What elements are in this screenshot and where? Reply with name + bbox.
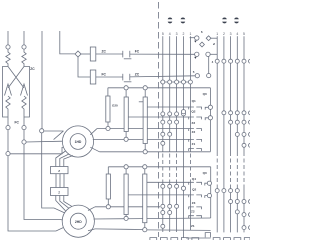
resistor box A2: [124, 174, 128, 215]
stub boxA2 bottom: [125, 215, 127, 217]
bridge BL circle: [195, 52, 199, 56]
wire L3 vertical: [41, 31, 43, 129]
svg-text:FC: FC: [135, 50, 140, 54]
bottom bus ladder: [186, 237, 211, 239]
pin column 4: [169, 36, 171, 152]
wire L2 vertical top: [23, 31, 25, 45]
svg-text:Q0: Q0: [203, 171, 207, 175]
wire L3 bottom run: [42, 133, 66, 214]
bus y167: [108, 166, 210, 168]
bus y117: [128, 116, 188, 118]
junction circle boxA top: [124, 86, 128, 90]
right circle row y145: [242, 143, 246, 147]
svg-text:3: 3: [230, 32, 232, 36]
stub boxB bottom: [144, 144, 146, 150]
bridge TL circle: [195, 36, 199, 40]
bus y229: [95, 228, 143, 231]
junction circle J2: [22, 140, 26, 144]
winding coil W1: [6, 96, 10, 125]
circle row y143: [161, 141, 165, 145]
bus y152: [100, 151, 211, 153]
circle row y226: [161, 224, 165, 228]
leads to motor2: [56, 196, 73, 211]
bridge feeder left top: [190, 37, 195, 39]
wire L2 lower: [23, 130, 25, 140]
terminal circle L1: [6, 45, 10, 49]
bottom connector shells: [150, 238, 157, 240]
svg-text:1HD: 1HD: [75, 140, 82, 144]
right col 5: [243, 36, 245, 152]
svg-text:FC: FC: [102, 73, 107, 77]
bus B to motor1: [26, 140, 63, 143]
junction circle under G20: [106, 126, 110, 130]
svg-text:G20: G20: [112, 104, 118, 108]
crossing wire X2: [8, 67, 24, 89]
contact row 206: [189, 207, 202, 209]
motor2 out diag bottom: [88, 229, 95, 231]
circle row y122: [161, 120, 165, 124]
right circle row y122: [229, 120, 233, 124]
svg-text:Z3: Z3: [192, 121, 196, 125]
circle row y186: [161, 184, 165, 188]
svg-text:Z3: Z3: [192, 201, 196, 205]
bus y139: [93, 138, 189, 140]
svg-text:5: 5: [162, 32, 164, 36]
wire L1 bottom run: [8, 156, 65, 231]
svg-text:Z1: Z1: [191, 224, 195, 228]
junction circle boxB top: [143, 86, 147, 90]
circle row y206: [161, 204, 165, 208]
connector arcs left pair1: [168, 17, 173, 23]
bus y182: [147, 181, 189, 183]
right col 4: [236, 36, 238, 152]
feeder vertical to ZC/FC: [60, 31, 75, 54]
resistor box A: [124, 97, 128, 132]
winding roof W1: [5, 84, 12, 96]
bridge BR circle: [206, 52, 210, 56]
right col 1: [216, 36, 218, 59]
connector tick 2a: [122, 74, 124, 81]
svg-text:Q0: Q0: [203, 92, 207, 96]
wire ZC to connector: [96, 53, 123, 55]
box FC: [90, 70, 96, 84]
motor1 out diag bottom: [90, 147, 99, 152]
bus C to motor1: [10, 147, 65, 154]
stub G20 bottom: [107, 122, 109, 126]
connector tick 1b: [129, 51, 131, 58]
fuse coil FU1: [6, 49, 10, 64]
terminal circle M2: [22, 126, 26, 130]
bus y128: [97, 128, 189, 130]
winding coil W2: [22, 96, 26, 125]
svg-text:Z1: Z1: [192, 142, 196, 146]
rail circle 118: [208, 116, 212, 120]
motor 2HD inner: [70, 213, 86, 229]
wire L2 bottom run: [24, 144, 63, 220]
motor 2HD outer: [62, 205, 94, 237]
terminal circle M1: [6, 126, 10, 130]
junction circle under G20b: [106, 205, 110, 209]
svg-text:N: N: [212, 43, 216, 45]
svg-text:FC: FC: [15, 121, 20, 125]
crossing wire X1: [8, 67, 24, 89]
bottom bracket: [205, 233, 210, 238]
connector dash 1: [124, 58, 132, 60]
resistor box B: [143, 97, 147, 144]
right circle row y190: [215, 189, 219, 193]
svg-text:2: 2: [183, 32, 185, 36]
diagonal feeder motor1 top: [54, 131, 64, 140]
winding roof W2: [21, 84, 28, 96]
wire diamond down: [78, 57, 90, 77]
node circle 4line: [207, 74, 211, 78]
contact row 127: [189, 129, 202, 131]
right circle row y134: [235, 132, 239, 136]
right circle row y113: [222, 111, 226, 115]
motor2 out diag top: [88, 207, 95, 211]
bus ZC to node5: [130, 76, 195, 77]
connector arcs right pair1: [222, 17, 227, 23]
svg-text:4: 4: [236, 32, 238, 36]
connector arcs right pair2: [234, 17, 239, 23]
svg-text:ZC: ZC: [135, 73, 140, 77]
wire FC to connector: [96, 76, 123, 78]
rail hook 107: [205, 107, 208, 109]
outer rail right: [24, 64, 30, 117]
bus y230 right part: [147, 229, 211, 232]
stub boxB2 top: [144, 169, 146, 174]
bridge diode mark 1: [194, 41, 196, 43]
bus y195: [128, 194, 189, 196]
bus y107: [147, 106, 188, 108]
resistor G20b: [106, 174, 110, 199]
rail circle 195: [207, 194, 211, 198]
svg-text:ZC: ZC: [30, 67, 35, 71]
rail circle 107: [208, 105, 212, 109]
rail hook 118: [205, 118, 208, 120]
rail hook 183: [205, 183, 208, 185]
right col6 circles: [249, 59, 253, 63]
bus y218: [94, 218, 211, 219]
junction circle boxA bottom: [124, 137, 128, 141]
bridge center diamond: [200, 42, 205, 47]
svg-text:Q4: Q4: [192, 177, 196, 181]
svg-text:3: 3: [176, 32, 178, 36]
contact row 182: [189, 182, 202, 184]
circle row y212: [161, 211, 165, 215]
stub G20b bottom: [107, 199, 109, 205]
fuse coil FU2: [22, 49, 26, 64]
ladder right rail upper: [209, 88, 211, 152]
rail circle 183: [207, 181, 211, 185]
motor 1HD inner: [70, 134, 86, 150]
connector tick 2b: [129, 74, 131, 81]
wire L1 vertical top: [7, 31, 9, 45]
right col 2: [223, 36, 225, 232]
stub boxA top: [125, 90, 127, 97]
contact row 148: [189, 149, 202, 151]
svg-text:Z2: Z2: [192, 130, 196, 134]
svg-text:Q2: Q2: [191, 110, 195, 114]
box ZC: [90, 47, 96, 61]
junction circle J3: [40, 129, 44, 133]
svg-text:2: 2: [223, 32, 225, 36]
svg-text:1: 1: [216, 32, 218, 36]
impedance box Z lower: [51, 188, 69, 196]
stub G20b top: [107, 167, 109, 174]
junction circle boxB2 bottom: [143, 228, 147, 232]
right circle row y201: [229, 200, 233, 204]
right col 6 edge: [250, 36, 252, 232]
bus A to motor1: [44, 130, 64, 132]
bus y206: [95, 206, 160, 208]
circle row y114: [161, 112, 165, 116]
contact row 194: [189, 195, 202, 197]
circle row y134: [161, 132, 165, 136]
motor1 out diag top: [90, 129, 97, 135]
svg-text:Z: Z: [58, 191, 60, 195]
right col 3: [230, 36, 232, 152]
rail hook 195: [205, 196, 208, 198]
outer rail left: [3, 64, 9, 117]
stub boxA2 top: [125, 169, 127, 174]
connector arcs left pair2: [181, 17, 186, 23]
bridge wire BR to rail: [210, 53, 217, 55]
junction circle boxA2 bottom: [124, 216, 128, 220]
svg-text:ZC: ZC: [102, 50, 107, 54]
pin column 2 rail: [183, 36, 185, 237]
svg-text:1: 1: [189, 32, 191, 36]
diamond node D1: [75, 51, 81, 57]
contact row 215: [189, 216, 202, 218]
svg-text:4: 4: [169, 32, 171, 36]
svg-text:2HD: 2HD: [75, 220, 82, 224]
pin column 5: [162, 36, 164, 152]
connector dash 2: [124, 81, 132, 83]
junction circle boxB bottom: [143, 150, 147, 154]
node circle 5: [195, 74, 199, 78]
contact row 138: [189, 139, 202, 141]
svg-text:Q1: Q1: [192, 99, 196, 103]
junction circle J1: [6, 152, 10, 156]
bus y88: [108, 87, 210, 89]
impedance box Z upper: [51, 167, 69, 174]
svg-text:5: 5: [243, 32, 245, 36]
stub boxA bottom: [125, 132, 127, 138]
stub boxB top: [144, 90, 146, 97]
svg-text:Q2: Q2: [192, 188, 196, 192]
wire L1 lower: [7, 130, 9, 152]
right circle row y212: [235, 210, 239, 214]
bridge wire TR to rail: [211, 37, 217, 39]
stub boxB2 bottom: [144, 223, 146, 228]
resistor box B2: [143, 174, 147, 223]
circle row y82: [161, 80, 165, 84]
section dash line: [157, 2, 159, 237]
pin column 1: [189, 36, 191, 152]
resistor G20: [106, 96, 110, 122]
right circle row y227: [242, 226, 246, 230]
junction circle col2 y188: [181, 186, 185, 190]
bus FC to bridge: [130, 53, 195, 55]
bridge diode mark 2: [194, 57, 196, 59]
contact row 106: [189, 107, 202, 109]
junction circle boxA2 top: [124, 165, 128, 169]
svg-text:Z: Z: [58, 169, 60, 173]
pin column 3: [176, 36, 178, 152]
right circle row y61: [215, 59, 219, 63]
junction circle boxB2 top: [143, 165, 147, 169]
wire to ZC box: [81, 53, 90, 55]
terminal circle L2: [22, 45, 26, 49]
tick near boxB: [139, 101, 143, 103]
bridge BR down wire: [208, 57, 210, 74]
bus y82: [160, 81, 190, 83]
motor leads down: [56, 151, 73, 167]
svg-text:Z2: Z2: [191, 210, 195, 214]
leads between Z boxes: [56, 174, 64, 188]
stub G20 top: [107, 88, 109, 96]
contact row 117: [189, 117, 202, 119]
connector tick 1a: [122, 51, 124, 58]
ladder right rail lower: [210, 167, 212, 218]
motor 1HD outer: [62, 126, 93, 157]
bridge TR diamond: [206, 36, 211, 41]
junction circle col rail y112: [181, 110, 185, 114]
